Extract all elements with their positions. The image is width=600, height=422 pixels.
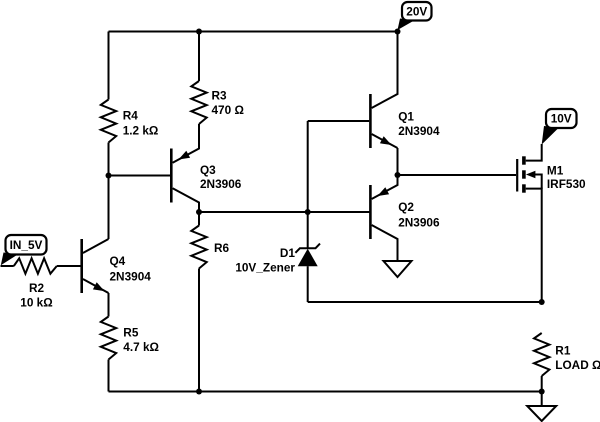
svg-text:10V: 10V [551,112,572,126]
wire R4 bottom stub [108,143,110,176]
node dot R1 bottom [539,389,545,395]
wire D1 anode down [307,266,309,302]
wire bottom rail [109,391,542,393]
transistor Q4 base bar [80,239,83,293]
wire R3 top stub [198,32,200,82]
svg-text:R1: R1 [555,344,571,358]
wire Q3 base [109,175,171,177]
net flag 10V [542,109,577,145]
wire Q1 emitter to node [397,148,399,175]
svg-text:4.7 kΩ: 4.7 kΩ [123,340,159,354]
arrow Q1 emitter (NPN) [380,136,392,145]
svg-text:10 kΩ: 10 kΩ [20,295,52,309]
diode D1 anode triangle [298,249,318,267]
resistor R4 [101,100,116,143]
wire R3 to Q3 emitter [173,124,199,163]
wire zener to source rail [308,301,542,303]
wire Q4 emitter to R5 [108,293,110,317]
node dot M1 source/R1 [539,299,545,305]
svg-text:M1: M1 [547,164,564,178]
arrow Q2 emitter (PNP) [378,187,390,196]
wire M1 drain [526,144,542,161]
wire R1 bottom [541,376,543,392]
node dot Q1/Q2 emitters [395,172,401,178]
svg-text:2N3906: 2N3906 [200,177,242,191]
wire M1 source [526,189,542,302]
wire ground stub bottom right [541,392,543,407]
wire M1 gate [398,174,517,176]
node dot R6 bottom [196,389,202,395]
svg-text:Q3: Q3 [200,163,216,177]
transistor Q1 base bar [369,94,372,148]
wire R5 to bottom rail [108,360,110,392]
svg-text:D1: D1 [280,246,296,260]
wire R6 top stub [198,212,200,226]
wire R4 node to Q4 collector [108,176,110,240]
svg-text:R4: R4 [123,109,139,123]
wire Q1 emitter diagonal [372,134,398,148]
svg-text:IN_5V: IN_5V [10,238,43,252]
diode D1 zener cathode bar [295,244,320,253]
wire Q2 collector [372,225,398,261]
svg-text:IRF530: IRF530 [547,177,586,191]
wire top rail [109,31,398,33]
wire Q4 collector diagonal [83,239,109,253]
node dot R4/Q3 base [106,173,112,179]
svg-text:Q2: Q2 [398,200,414,214]
net flag IN_5V [1,235,47,265]
ground Q2 collector [384,261,412,277]
svg-text:1.2 kΩ: 1.2 kΩ [123,123,159,137]
wire input stub [1,265,14,267]
svg-text:2N3904: 2N3904 [398,124,440,138]
resistor R3 [191,81,206,124]
wire Q1 base [308,120,370,122]
wire Q4 emitter diagonal [83,279,109,293]
wire R4 top stub [108,32,110,100]
wire Q2 emitter [372,175,398,199]
transistor Q2 base bar [369,185,372,239]
svg-text:10V_Zener: 10V_Zener [235,260,295,274]
arrow Q3 emitter (PNP) [179,151,191,160]
svg-text:20V: 20V [406,4,427,18]
node dot 20V [395,29,401,35]
resistor R2 [14,258,57,273]
svg-text:LOAD Ω: LOAD Ω [555,358,600,372]
arrow Q4 emitter (NPN) [93,282,105,291]
transistor Q3 base bar [170,149,173,203]
wire zener column [307,121,309,248]
svg-text:Q1: Q1 [398,109,414,123]
svg-text:R5: R5 [123,326,139,340]
ground bottom right [527,406,556,421]
mosfet M1 gate bar [516,159,518,192]
wire node to Q2 base [199,211,370,213]
net flag 20V [398,2,432,30]
wire Q1 collector [372,32,398,109]
wire Q3 collector [173,188,199,212]
resistor R5 [101,317,116,360]
svg-text:R3: R3 [212,89,228,103]
svg-text:R2: R2 [29,281,45,295]
node dot Q3 collector/R6 [196,209,202,215]
arrow M1 body (NMOS) [526,171,536,178]
wire R6 to bottom rail [198,269,200,392]
node dot zener column [305,209,311,215]
resistor R1 [534,333,549,376]
resistor R6 [191,226,206,269]
mosfet M1 channel segments [522,156,526,192]
svg-text:2N3906: 2N3906 [398,215,440,229]
svg-text:2N3904: 2N3904 [110,269,152,283]
svg-text:Q4: Q4 [110,254,126,268]
wire R2 to Q4 base [57,265,81,267]
wire M1 body to source [533,175,542,189]
svg-text:470 Ω: 470 Ω [212,103,244,117]
node dot top R3 [196,29,202,35]
svg-text:R6: R6 [214,241,230,255]
